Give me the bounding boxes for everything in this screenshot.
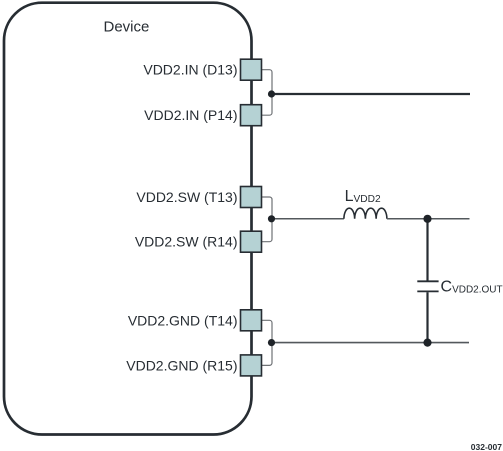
svg-text:LVDD2: LVDD2 <box>345 188 381 205</box>
svg-text:VDD2.SW (T13): VDD2.SW (T13) <box>136 189 237 205</box>
svg-text:VDD2.SW (R14): VDD2.SW (R14) <box>135 234 238 250</box>
svg-text:CVDD2.OUT: CVDD2.OUT <box>441 279 503 296</box>
svg-text:VDD2.IN (D13): VDD2.IN (D13) <box>143 62 237 78</box>
svg-text:Device: Device <box>104 18 150 35</box>
svg-text:032-007: 032-007 <box>471 442 502 451</box>
svg-text:VDD2.GND (R15): VDD2.GND (R15) <box>126 357 237 373</box>
svg-text:VDD2.IN (P14): VDD2.IN (P14) <box>144 107 237 123</box>
svg-text:VDD2.GND (T14): VDD2.GND (T14) <box>128 312 238 328</box>
